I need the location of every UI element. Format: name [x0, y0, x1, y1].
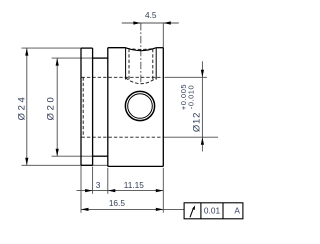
- front hole inner circle: [128, 94, 153, 119]
- arrow phi20 top: [56, 58, 59, 66]
- arrow 3 left (outside): [85, 189, 93, 192]
- svg-text:-0.010: -0.010: [186, 85, 195, 109]
- ext line x107.8 below part: [107, 168, 109, 194]
- svg-text:A: A: [234, 205, 240, 215]
- arrow 11.15 left: [108, 189, 116, 192]
- svg-text:4.5: 4.5: [145, 10, 157, 20]
- arrow phi12 top: [201, 70, 204, 78]
- dim line phi20: [56, 58, 58, 156]
- svg-text:0.01: 0.01: [204, 205, 221, 215]
- thread minor left hidden: [128, 49, 130, 81]
- main body bottom edge: [108, 165, 164, 167]
- svg-text:Ø12: Ø12: [191, 112, 202, 132]
- ext line x81 below part: [80, 166, 82, 213]
- svg-text:16.5: 16.5: [109, 198, 126, 208]
- bore bottom hidden line: [82, 136, 163, 138]
- dimension extension lines (gray): [22, 23, 219, 213]
- top hole surface arc: [126, 48, 157, 51]
- part outline (black): [81, 48, 163, 167]
- collar left face: [80, 48, 82, 165]
- dim line 16.5 and leader to frame: [81, 208, 184, 210]
- arrow 16.5 right: [156, 208, 164, 211]
- dimension texts: [96, 10, 241, 215]
- collar right rim: [92, 48, 94, 165]
- hole wall left: [125, 48, 127, 80]
- dim line phi24: [26, 48, 28, 165]
- main body top edge right: [156, 47, 163, 49]
- centerline of top hole: [140, 23, 142, 83]
- ext line x92.6 below part: [92, 167, 94, 194]
- arrowheads: [25, 21, 204, 211]
- ext line x163.3 below part: [162, 168, 164, 213]
- ext line phi12 top: [165, 76, 208, 78]
- arrow 4.5 left: [133, 21, 141, 24]
- ext line phi12 bottom: [164, 136, 219, 138]
- runout symbol arrow: [190, 207, 194, 217]
- arrow phi24 top: [25, 48, 28, 56]
- main body left rim: [107, 48, 109, 167]
- arrow phi12 bottom: [201, 137, 204, 145]
- bore top hidden line: [82, 76, 163, 78]
- ext line top phi20: [52, 57, 93, 59]
- groove bottom edge: [93, 155, 108, 157]
- svg-text:Ø24: Ø24: [16, 95, 27, 121]
- arrow 11.15 right: [156, 189, 164, 192]
- collar top edge: [81, 47, 93, 49]
- bore start hidden vertical: [82, 77, 84, 137]
- collar bottom edge: [81, 164, 93, 166]
- feature control frame box: [184, 203, 243, 219]
- svg-text:3: 3: [96, 180, 101, 190]
- dim line phi12: [201, 61, 203, 151]
- arrow phi24 bottom: [25, 158, 28, 166]
- hole wall right: [155, 48, 157, 80]
- groove top edge: [93, 57, 108, 59]
- svg-text:11.15: 11.15: [124, 180, 145, 190]
- ext line top phi24: [22, 47, 82, 49]
- front hole outer circle: [125, 91, 154, 120]
- ext line bottom phi24: [22, 164, 108, 166]
- main body top edge left: [108, 47, 126, 49]
- dim line 3 and 11.15: [77, 190, 164, 192]
- hidden lines (dashed): [82, 48, 163, 137]
- arrow 4.5 right: [163, 21, 171, 24]
- thread minor right hidden: [152, 49, 154, 81]
- arrow phi20 bottom: [56, 149, 59, 157]
- thread minor rim hidden arc: [127, 48, 155, 49]
- dim line 4.5: [122, 22, 179, 24]
- ext line bottom phi20: [52, 155, 93, 157]
- svg-text:Ø20: Ø20: [45, 95, 56, 121]
- arrow 16.5 left: [81, 208, 89, 211]
- hole-bore intersection hidden arc: [126, 78, 157, 84]
- ext line right face above part: [162, 23, 164, 48]
- right face: [162, 48, 164, 167]
